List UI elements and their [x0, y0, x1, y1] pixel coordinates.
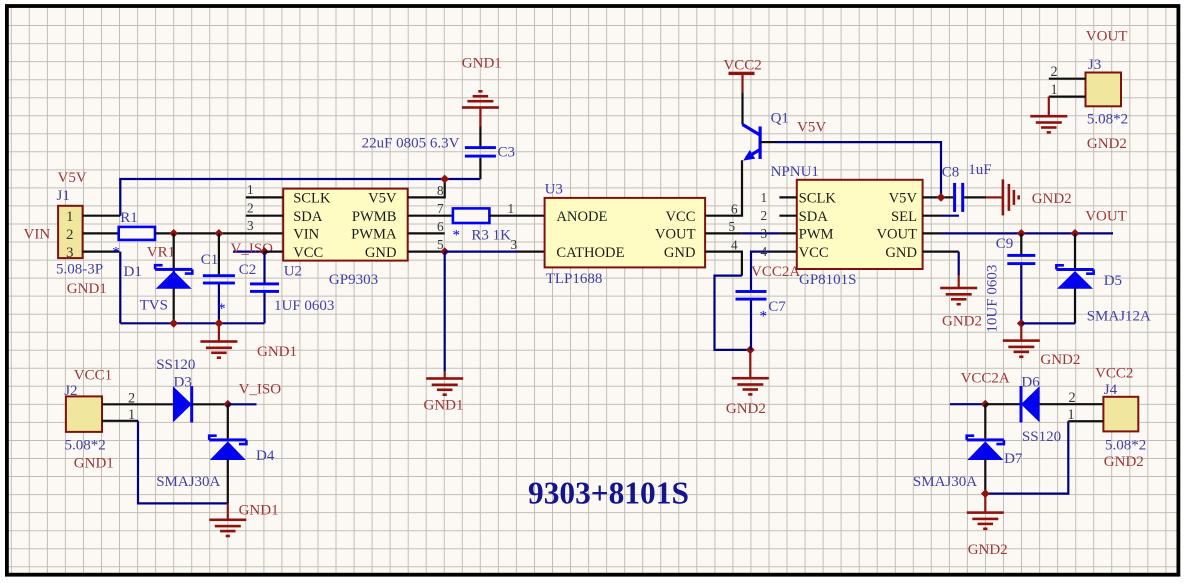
- svg-text:C2: C2: [239, 262, 257, 278]
- svg-text:VCC2: VCC2: [1095, 366, 1133, 382]
- svg-text:GND: GND: [365, 245, 397, 261]
- svg-text:GND2: GND2: [726, 401, 766, 417]
- svg-text:D7: D7: [1004, 451, 1023, 467]
- wire J1 pin1 stub: [83, 215, 121, 217]
- wire U2 GND net to U3 CATHODE: [445, 251, 517, 253]
- TVS diode D5 lower lead: [1074, 289, 1076, 324]
- svg-text:9303+8101S: 9303+8101S: [528, 475, 689, 510]
- junction at VR1 top: [169, 229, 178, 238]
- svg-text:GND2: GND2: [968, 542, 1008, 558]
- wire J1 pin3 stub: [83, 251, 120, 253]
- junction VCC2A at D7: [981, 400, 990, 409]
- wire J1 pin2 stub to R1: [83, 232, 119, 234]
- svg-text:VOUT: VOUT: [1086, 29, 1128, 45]
- svg-text:VOUT: VOUT: [655, 227, 696, 243]
- wire C9 upper lead: [1020, 233, 1022, 254]
- svg-text:*: *: [760, 309, 768, 325]
- junction C9 bottom: [1017, 319, 1026, 328]
- svg-text:5.08*2: 5.08*2: [1105, 437, 1146, 453]
- wire U3 pin4 stub and elbow down: [705, 252, 742, 276]
- junction V5V at C8: [937, 193, 946, 202]
- svg-text:VCC2A: VCC2A: [751, 264, 800, 280]
- capacitor C3 upper lead: [479, 127, 481, 147]
- wire U4 V5V pin to C8: [923, 196, 953, 198]
- svg-text:J2: J2: [64, 383, 77, 399]
- svg-text:VCC: VCC: [799, 245, 829, 261]
- wire J2 pin1 stub: [102, 420, 138, 422]
- svg-text:C1: C1: [201, 252, 219, 268]
- svg-text:VR1: VR1: [147, 244, 175, 260]
- wire C2 lower lead: [263, 293, 265, 324]
- svg-text:GND1: GND1: [74, 456, 114, 472]
- svg-text:V_ISO: V_ISO: [239, 382, 282, 398]
- wire U2 pin2 stub: [246, 215, 283, 217]
- wire bottom rail GND1 left section: [120, 322, 264, 324]
- svg-text:SCLK: SCLK: [293, 191, 331, 207]
- svg-text:1: 1: [761, 190, 768, 205]
- ground GND2 right of C8: [1002, 179, 1005, 215]
- capacitor C3: [465, 146, 496, 149]
- wire J4 pin1 loop to D7 bottom: [1068, 420, 1103, 422]
- ground GND1 below U2: [426, 377, 463, 380]
- svg-text:V5V: V5V: [368, 191, 397, 207]
- wire U2 VCC stub: [265, 251, 284, 253]
- svg-text:1: 1: [1068, 407, 1075, 423]
- junction at C1 top: [215, 229, 224, 238]
- svg-text:TLP1688: TLP1688: [546, 271, 603, 287]
- svg-text:SMAJ12A: SMAJ12A: [1087, 309, 1151, 325]
- wire C2 upper lead: [263, 252, 265, 283]
- svg-text:8: 8: [437, 183, 444, 198]
- svg-text:4: 4: [761, 244, 768, 259]
- svg-text:D6: D6: [1021, 374, 1040, 390]
- svg-text:SS120: SS120: [1022, 429, 1061, 445]
- wire U3 pin5 stub: [705, 232, 742, 234]
- svg-text:V_ISO: V_ISO: [231, 241, 274, 257]
- svg-text:GND1: GND1: [67, 281, 107, 297]
- svg-text:CATHODE: CATHODE: [556, 245, 624, 261]
- ground GND1 below D4: [227, 503, 229, 519]
- junction V_ISO at D4: [223, 400, 232, 409]
- svg-text:V5V: V5V: [58, 170, 87, 186]
- svg-text:4: 4: [731, 237, 738, 252]
- wire D3 to V_ISO: [192, 403, 228, 405]
- svg-text:SDA: SDA: [799, 209, 829, 225]
- svg-text:5: 5: [729, 219, 736, 234]
- ground GND2 below U4: [940, 287, 977, 290]
- svg-text:D3: D3: [174, 374, 192, 390]
- wire U3 pin6 stub up to Q1 emitter: [705, 160, 742, 216]
- ground GND1 above C3: [462, 106, 499, 109]
- ground GND2 below J3 pin1: [1048, 97, 1050, 116]
- svg-text:*: *: [218, 301, 226, 317]
- capacitor C8: [953, 183, 956, 212]
- wire V_ISO stub right: [228, 403, 257, 405]
- svg-text:C9: C9: [996, 236, 1014, 252]
- wire D6 to J4 pin2: [1040, 403, 1104, 405]
- svg-text:1: 1: [247, 182, 254, 197]
- ground GND2 below C7: [749, 350, 751, 378]
- wire VCC2A to D6 bar: [985, 403, 1020, 405]
- svg-text:*: *: [453, 228, 461, 244]
- svg-text:U2: U2: [284, 264, 302, 280]
- TVS diode D4 upper lead: [227, 404, 229, 438]
- svg-text:C7: C7: [768, 299, 786, 315]
- TVS diode D7 lower lead: [984, 459, 986, 494]
- junction V5V wire at pin8: [440, 175, 449, 184]
- TVS diode D7 upper lead: [984, 404, 986, 438]
- wire V_ISO stub at U2 VCC: [233, 251, 265, 253]
- svg-text:1: 1: [1051, 82, 1058, 98]
- wire U4 pin1 stub: [779, 196, 796, 198]
- svg-text:U3: U3: [545, 182, 563, 198]
- svg-text:GND2: GND2: [942, 314, 982, 330]
- svg-text:6: 6: [731, 202, 738, 217]
- svg-text:3: 3: [511, 237, 518, 252]
- TVS diode D5: [1056, 265, 1064, 269]
- svg-text:SMAJ30A: SMAJ30A: [913, 474, 977, 490]
- svg-text:6: 6: [437, 219, 444, 234]
- wire R3 to U3 ANODE: [489, 215, 544, 217]
- junction U2 pin5: [440, 247, 449, 256]
- svg-text:VIN: VIN: [293, 227, 319, 243]
- IC U4 GP8101S: [797, 180, 923, 269]
- wire U2 pin7 stub to R3: [408, 215, 455, 217]
- wire VOUT net: [923, 232, 941, 234]
- svg-text:V5V: V5V: [797, 120, 826, 136]
- svg-text:VIN: VIN: [24, 226, 51, 242]
- svg-text:SMAJ30A: SMAJ30A: [156, 474, 220, 490]
- svg-text:VCC: VCC: [293, 245, 323, 261]
- wire VCC2A net to D6: [950, 403, 985, 405]
- svg-text:GP8101S: GP8101S: [799, 272, 857, 288]
- junction VR1 bottom: [169, 319, 178, 328]
- wire V5V net from Q1 base to C8: [760, 141, 776, 143]
- wire C9 lower lead: [1020, 265, 1022, 323]
- svg-text:*: *: [112, 244, 120, 260]
- connector J2: [66, 396, 102, 432]
- wire R1 to U2 VIN: [155, 232, 283, 234]
- svg-text:VCC2: VCC2: [723, 58, 761, 74]
- wire J3 pin2 stub: [1049, 78, 1086, 80]
- svg-text:C8: C8: [942, 165, 960, 181]
- svg-text:VOUT: VOUT: [1085, 209, 1127, 225]
- svg-text:PWM: PWM: [799, 227, 834, 243]
- wire U2 pin1 stub: [246, 196, 283, 198]
- svg-text:GND1: GND1: [239, 502, 279, 518]
- svg-text:J4: J4: [1104, 382, 1118, 398]
- svg-text:GND1: GND1: [424, 398, 464, 414]
- svg-text:R3 1K: R3 1K: [471, 228, 511, 244]
- wire U4 pin2 stub: [779, 215, 796, 217]
- TVS diode D5 upper lead: [1074, 233, 1076, 268]
- svg-text:GP9303: GP9303: [329, 272, 378, 288]
- capacitor C9: [1007, 254, 1035, 257]
- connector J1: [58, 206, 83, 258]
- svg-text:Q1: Q1: [771, 111, 789, 127]
- svg-text:1: 1: [66, 209, 74, 225]
- diode D6: [1021, 386, 1040, 422]
- wire U4 VCC pin elbow to C7: [770, 251, 797, 253]
- svg-text:5.08*2: 5.08*2: [65, 437, 106, 453]
- wire V5V net: J1 pin1 up and across to C3: [120, 179, 480, 216]
- svg-text:J1: J1: [57, 188, 70, 204]
- svg-text:D5: D5: [1104, 273, 1122, 289]
- svg-text:2: 2: [247, 200, 254, 215]
- TVS diode VR1 vertical lead: [173, 233, 175, 323]
- resistor R3: [453, 208, 490, 223]
- junction VOUT at C9: [1017, 229, 1026, 238]
- svg-text:2: 2: [1069, 390, 1076, 406]
- svg-text:1UF 0603: 1UF 0603: [274, 298, 334, 314]
- wire U2 pin8 stub and up to V5V wire: [408, 179, 445, 197]
- junction C1 bottom / GND1 stem: [215, 319, 224, 328]
- svg-text:PWMA: PWMA: [351, 227, 397, 243]
- wire J3 pin1 stub: [1049, 95, 1086, 97]
- TVS diode D7: [967, 436, 975, 440]
- svg-text:2: 2: [1051, 64, 1058, 80]
- wire J2 pin2 stub to D3: [102, 403, 173, 405]
- capacitor C3 lower lead: [479, 158, 481, 179]
- svg-text:SDA: SDA: [293, 209, 323, 225]
- wire U3 VOUT to U4 PWM: [742, 232, 780, 234]
- wire U2 pin5 stub: [408, 251, 445, 253]
- svg-text:7: 7: [437, 201, 444, 216]
- svg-text:VCC: VCC: [665, 209, 695, 225]
- wire U2 pin6 stub: [408, 232, 445, 234]
- svg-text:GND1: GND1: [462, 56, 502, 72]
- wire C1 lower lead: [218, 284, 220, 323]
- svg-text:1: 1: [128, 407, 135, 423]
- capacitor C2: [250, 282, 279, 285]
- connector J3: [1086, 73, 1122, 107]
- svg-text:D4: D4: [256, 448, 275, 464]
- wire U4 GND pin down to GND2: [923, 251, 959, 253]
- optocoupler U3 TLP1688: [545, 198, 706, 268]
- TVS diode VR1: [155, 265, 163, 269]
- svg-text:J3: J3: [1088, 57, 1101, 73]
- svg-text:V5V: V5V: [889, 191, 918, 207]
- svg-text:5.08*2: 5.08*2: [1087, 111, 1128, 127]
- svg-text:ANODE: ANODE: [556, 209, 607, 225]
- svg-text:GND2: GND2: [1040, 352, 1080, 368]
- svg-text:GND2: GND2: [1087, 136, 1127, 152]
- svg-text:3: 3: [247, 218, 254, 233]
- connector J4: [1103, 397, 1138, 432]
- svg-text:D1: D1: [124, 264, 142, 280]
- svg-text:GND: GND: [885, 245, 917, 261]
- svg-text:SS120: SS120: [156, 357, 195, 373]
- svg-text:VCC1: VCC1: [74, 368, 112, 384]
- svg-text:5.08-3P: 5.08-3P: [56, 261, 103, 277]
- junction GND2 net below C7: [746, 346, 755, 355]
- svg-text:2: 2: [66, 227, 74, 243]
- svg-text:R1: R1: [120, 210, 138, 226]
- svg-text:3: 3: [66, 245, 74, 261]
- junction VOUT at D5: [1071, 229, 1080, 238]
- junction GND2 at D7 bottom: [981, 489, 990, 498]
- resistor R1: [119, 227, 155, 240]
- junction at C2 top: [260, 247, 269, 256]
- TVS diode D4 lower lead: [227, 459, 229, 503]
- ground GND2 below D7: [984, 494, 986, 512]
- wire C8 to GND2 symbol: [964, 196, 986, 198]
- wire C1 upper lead: [218, 233, 220, 274]
- svg-text:22uF 0805 6.3V: 22uF 0805 6.3V: [362, 136, 460, 152]
- svg-text:1uF: 1uF: [968, 162, 991, 178]
- svg-text:SCLK: SCLK: [799, 191, 837, 207]
- svg-text:PWMB: PWMB: [352, 209, 397, 225]
- svg-text:10UF 0603: 10UF 0603: [984, 265, 1000, 333]
- svg-text:3: 3: [761, 226, 768, 241]
- svg-text:TVS: TVS: [140, 298, 168, 314]
- svg-text:VOUT: VOUT: [876, 227, 917, 243]
- wire C7 lower lead: [750, 301, 752, 350]
- svg-text:GND1: GND1: [257, 344, 297, 360]
- svg-text:GND: GND: [664, 245, 696, 261]
- wire J1 pin3 down to bottom rail: [119, 252, 121, 324]
- power port VCC2: [729, 72, 755, 75]
- svg-text:C3: C3: [498, 145, 516, 161]
- svg-text:GND2: GND2: [1032, 191, 1072, 207]
- wire J2 pin1 loop to D4 bottom: [138, 421, 228, 504]
- svg-text:2: 2: [761, 208, 768, 223]
- capacitor C1: [203, 274, 235, 277]
- wire U2 GND net down to GND1: [444, 252, 446, 371]
- capacitor C7: [736, 290, 767, 293]
- svg-text:GND2: GND2: [1104, 454, 1144, 470]
- TVS diode D4: [209, 436, 217, 440]
- svg-text:NPNU1: NPNU1: [771, 164, 819, 180]
- op IC U2 GP9303: [283, 189, 408, 261]
- diode D3: [173, 386, 192, 422]
- svg-text:VCC2A: VCC2A: [961, 370, 1010, 386]
- ground GND1 below C1: [218, 323, 220, 341]
- svg-text:SEL: SEL: [891, 209, 917, 225]
- wire U4 SEL stub: [923, 215, 941, 217]
- svg-text:2: 2: [128, 391, 135, 407]
- ground GND2 below C9: [1020, 323, 1022, 340]
- transistor Q1 collector lead: [741, 92, 743, 124]
- svg-text:1: 1: [508, 201, 515, 216]
- wire C9 to D5 bottom: [1021, 322, 1075, 324]
- transistor Q1: [759, 127, 762, 160]
